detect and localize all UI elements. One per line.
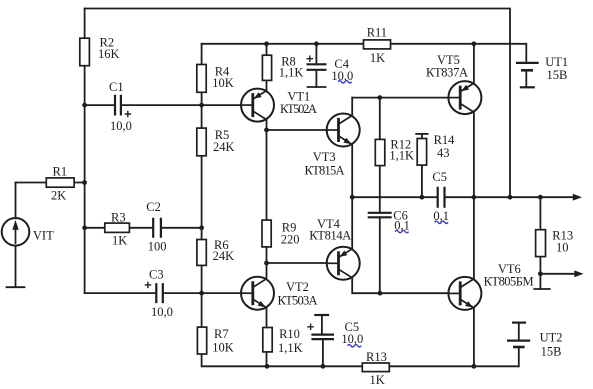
svg-text:R11: R11 (367, 26, 387, 40)
svg-text:КТ815А: КТ815А (305, 164, 345, 178)
svg-text:КТ814А: КТ814А (309, 229, 351, 243)
svg-text:16K: 16K (98, 47, 120, 61)
svg-text:10K: 10K (212, 341, 234, 355)
svg-text:24K: 24K (213, 140, 235, 154)
svg-text:КТ502А: КТ502А (280, 102, 317, 116)
svg-text:C3: C3 (149, 268, 164, 282)
svg-text:R7: R7 (214, 327, 229, 341)
svg-text:C2: C2 (146, 200, 161, 214)
svg-text:10: 10 (556, 241, 569, 255)
svg-text:VT3: VT3 (313, 150, 336, 164)
svg-text:220: 220 (281, 232, 300, 246)
svg-text:10,0: 10,0 (151, 305, 173, 319)
svg-text:1K: 1K (370, 51, 385, 65)
svg-text:C5: C5 (432, 170, 447, 184)
svg-text:2K: 2K (51, 189, 66, 203)
svg-text:10,0: 10,0 (341, 332, 363, 346)
svg-text:10,0: 10,0 (331, 69, 353, 83)
svg-text:КТ805БМ: КТ805БМ (484, 275, 534, 289)
svg-text:10,0: 10,0 (110, 119, 132, 133)
svg-text:43: 43 (437, 146, 450, 160)
svg-text:1,1K: 1,1K (278, 341, 303, 355)
svg-text:1,1K: 1,1K (389, 148, 414, 162)
svg-text:15В: 15В (541, 345, 562, 359)
svg-text:UT2: UT2 (540, 330, 563, 344)
svg-text:R10: R10 (279, 327, 300, 341)
svg-text:15В: 15В (547, 68, 568, 82)
svg-text:R13: R13 (366, 350, 387, 364)
svg-text:10K: 10K (212, 76, 234, 90)
svg-text:100: 100 (148, 240, 167, 254)
svg-text:1K: 1K (370, 373, 385, 387)
svg-text:КТ837А: КТ837А (426, 66, 468, 80)
svg-text:24K: 24K (213, 249, 235, 263)
svg-text:1,1K: 1,1K (279, 66, 304, 80)
svg-text:C1: C1 (109, 80, 124, 94)
svg-text:VT2: VT2 (286, 280, 309, 294)
svg-text:R1: R1 (53, 165, 68, 179)
svg-text:VIT: VIT (33, 229, 54, 243)
svg-text:R3: R3 (111, 211, 126, 225)
svg-text:КТ503А: КТ503А (278, 294, 318, 308)
svg-text:1K: 1K (112, 234, 127, 248)
